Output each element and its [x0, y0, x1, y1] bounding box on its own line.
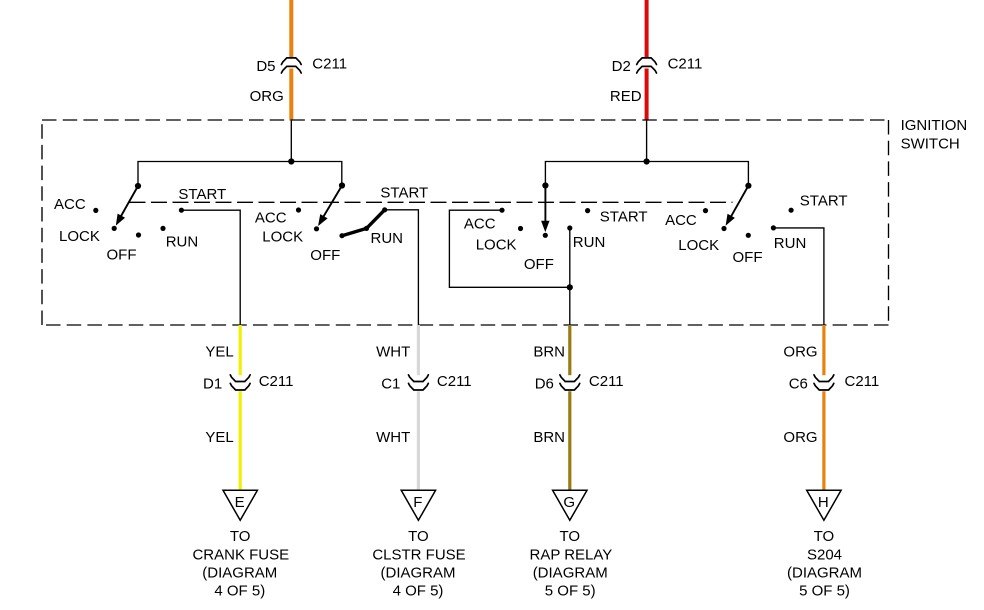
wire YEL output — [239, 325, 242, 490]
svg-text:CLSTR FUSE: CLSTR FUSE — [372, 546, 465, 563]
svg-text:C211: C211 — [668, 55, 703, 72]
svg-text:C211: C211 — [259, 373, 294, 390]
svg-text:5 OF 5): 5 OF 5) — [799, 583, 850, 600]
svg-text:ORG: ORG — [250, 88, 284, 105]
svg-text:RUN: RUN — [774, 235, 807, 252]
wire pole 3 RUN to BRN output — [569, 228, 571, 325]
wire ORG battery feed (top) — [289, 0, 293, 121]
pole 4 contact OFF — [746, 233, 751, 238]
label IGNITION SWITCH — [901, 117, 968, 153]
pole 4 contact START — [789, 208, 794, 213]
svg-text:(DIAGRAM: (DIAGRAM — [787, 565, 862, 582]
label TO CLSTR FUSE — [372, 528, 465, 599]
svg-text:4 OF 5): 4 OF 5) — [214, 583, 265, 600]
svg-text:TO: TO — [408, 528, 429, 545]
pole 2 contact ACC — [296, 207, 301, 212]
wire WHT output — [417, 325, 420, 490]
svg-text:5 OF 5): 5 OF 5) — [545, 583, 596, 600]
svg-text:START: START — [178, 186, 226, 203]
connector C211 pin D2 — [637, 58, 657, 73]
pole 2 contact START — [382, 207, 387, 212]
ignition switch enclosure (dashed box) — [42, 120, 889, 325]
svg-text:D5: D5 — [256, 58, 275, 75]
svg-text:C211: C211 — [845, 373, 880, 390]
svg-text:WHT: WHT — [376, 344, 410, 361]
svg-text:E: E — [235, 494, 245, 511]
pole 1 contact ACC — [93, 208, 98, 213]
pole 3 labels — [464, 209, 648, 273]
svg-text:IGNITION: IGNITION — [901, 117, 968, 134]
svg-text:D6: D6 — [535, 375, 554, 392]
svg-text:4 OF 5): 4 OF 5) — [393, 583, 444, 600]
svg-text:SWITCH: SWITCH — [901, 136, 960, 153]
svg-text:START: START — [380, 185, 428, 202]
svg-text:D1: D1 — [203, 375, 222, 392]
pole 3 contact RUN — [567, 225, 572, 230]
svg-text:WHT: WHT — [376, 429, 410, 446]
svg-text:TO: TO — [560, 528, 581, 545]
wire pole 2 START to WHT output — [385, 210, 419, 325]
svg-text:YEL: YEL — [205, 429, 233, 446]
svg-text:C211: C211 — [589, 373, 624, 390]
svg-text:START: START — [800, 192, 848, 209]
svg-text:RAP RELAY: RAP RELAY — [529, 546, 612, 563]
svg-text:LOCK: LOCK — [476, 236, 517, 253]
pole 3 contact LOCK — [518, 226, 523, 231]
svg-text:ORG: ORG — [783, 429, 817, 446]
pole 2 contact RUN — [364, 226, 369, 231]
svg-text:LOCK: LOCK — [678, 237, 719, 254]
svg-text:RED: RED — [610, 88, 642, 105]
pole 2 contact LOCK — [314, 226, 319, 231]
wire RED battery feed (top) — [645, 0, 649, 121]
pole 1 contact START — [179, 208, 184, 213]
switch pole 2 arm (points to LOCK) — [319, 186, 342, 225]
svg-text:OFF: OFF — [733, 249, 763, 266]
svg-text:RUN: RUN — [166, 233, 199, 250]
pole 3 contact ACC — [499, 208, 504, 213]
svg-text:START: START — [600, 209, 648, 226]
wire BRN output — [568, 325, 571, 490]
connector C211 pin C6 — [814, 375, 834, 390]
svg-text:C1: C1 — [381, 375, 400, 392]
switch pole 3 pivot — [542, 182, 548, 188]
svg-text:RUN: RUN — [371, 230, 404, 247]
switch pole 1 arm (points to LOCK) — [117, 186, 139, 224]
wire ORG output — [822, 325, 825, 490]
svg-text:OFF: OFF — [107, 247, 137, 264]
switch pole 3 arm (points to OFF) — [542, 186, 549, 231]
svg-text:TO: TO — [230, 528, 251, 545]
wire bus right (feeds poles 3 and 4) — [545, 162, 748, 186]
svg-text:OFF: OFF — [524, 256, 554, 273]
node junction D2/bus — [644, 158, 650, 164]
off-page connector E — [223, 490, 257, 520]
svg-text:YEL: YEL — [205, 344, 233, 361]
svg-text:BRN: BRN — [533, 344, 565, 361]
svg-text:C211: C211 — [437, 373, 472, 390]
label TO CRANK FUSE — [192, 528, 289, 599]
label TO RAP RELAY — [529, 528, 612, 599]
pole 2 contact OFF — [339, 233, 344, 238]
wire pole 3 ACC tie to RUN output — [449, 210, 569, 287]
off-page connector H — [807, 490, 841, 520]
svg-text:TO: TO — [814, 528, 835, 545]
svg-text:ACC: ACC — [464, 216, 496, 233]
wire pole 4 RUN to ORG output — [773, 228, 824, 325]
pole 1 labels — [54, 186, 226, 264]
connector C211 pin C1 — [409, 375, 429, 390]
mechanical linkage (dashed, gangs the four poles) — [130, 201, 733, 203]
svg-text:ACC: ACC — [54, 196, 86, 213]
svg-text:BRN: BRN — [533, 429, 565, 446]
pole 1 contact OFF — [136, 232, 141, 237]
svg-text:F: F — [413, 494, 422, 511]
svg-text:ACC: ACC — [255, 209, 287, 226]
node junction ACC/RUN tie — [567, 284, 573, 290]
node junction D5/bus — [288, 158, 294, 164]
svg-text:(DIAGRAM: (DIAGRAM — [202, 565, 277, 582]
svg-text:H: H — [818, 494, 829, 511]
svg-text:LOCK: LOCK — [262, 228, 303, 245]
pole 4 contact LOCK — [721, 226, 726, 231]
switch pole 4 arm (points to LOCK) — [726, 186, 748, 225]
pole 2 labels — [255, 185, 428, 264]
svg-text:C6: C6 — [789, 375, 808, 392]
wire from D2 into switch — [646, 120, 648, 162]
svg-text:LOCK: LOCK — [59, 228, 100, 245]
connector C211 pin D1 — [230, 375, 250, 390]
svg-text:ACC: ACC — [665, 212, 697, 229]
pole 2 bridge contact OFF-RUN-START (heavy) — [342, 210, 385, 236]
svg-text:RUN: RUN — [573, 234, 606, 251]
connector C211 pin D5 — [281, 58, 301, 73]
label TO S204 — [787, 528, 862, 599]
pole 1 contact RUN — [160, 226, 165, 231]
wire pole 1 START to YEL output — [181, 210, 240, 325]
svg-text:ORG: ORG — [783, 344, 817, 361]
switch pole 4 pivot — [745, 183, 751, 189]
wire bus left (feeds poles 1 and 2) — [138, 162, 342, 187]
pole 3 contact START — [585, 208, 590, 213]
pole 4 labels — [665, 192, 847, 266]
svg-text:OFF: OFF — [310, 247, 340, 264]
svg-text:G: G — [563, 494, 575, 511]
svg-text:(DIAGRAM: (DIAGRAM — [381, 565, 456, 582]
switch pole 2 pivot — [339, 182, 345, 188]
wire from D5 into switch — [290, 120, 292, 162]
svg-text:D2: D2 — [612, 58, 631, 75]
pole 1 contact LOCK — [112, 226, 117, 231]
svg-text:C211: C211 — [312, 55, 347, 72]
pole 4 contact ACC — [703, 208, 708, 213]
svg-text:CRANK FUSE: CRANK FUSE — [192, 546, 289, 563]
off-page connector F — [401, 490, 435, 520]
svg-text:S204: S204 — [807, 546, 842, 563]
switch pole 1 pivot — [135, 183, 141, 189]
pole 4 contact RUN — [771, 225, 776, 230]
svg-text:(DIAGRAM: (DIAGRAM — [533, 565, 608, 582]
connector C211 pin D6 — [560, 375, 580, 390]
off-page connector G — [553, 490, 587, 520]
pole 3 contact OFF — [543, 233, 548, 238]
